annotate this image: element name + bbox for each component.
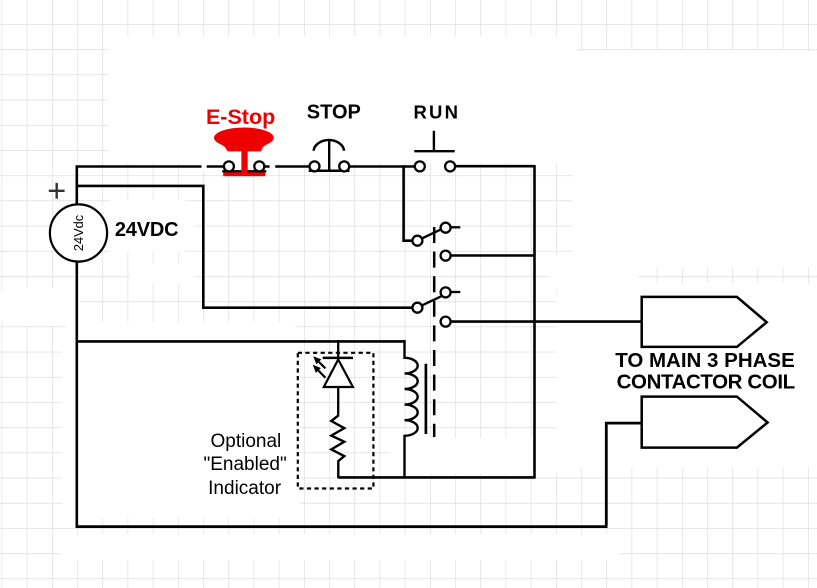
wire coil bottom to bus [338,476,535,479]
bottom rail wire [76,525,608,528]
wire flag 2 to bottom rail [606,423,641,525]
wire minus rail to coil top [76,340,405,343]
svg-text:CONTACTOR COIL: CONTACTOR COIL [617,371,795,394]
power source B1 24VDC [50,204,107,261]
svg-text:Optional: Optional [211,431,282,452]
wire E-Stop to STOP [265,165,310,168]
svg-text:TO MAIN 3 PHASE: TO MAIN 3 PHASE [615,349,795,372]
resistor R1 [331,416,344,479]
svg-text:RUN: RUN [413,102,460,123]
wire K1a latch to bus [451,254,536,257]
dotted enclosure (optional indicator) [298,353,374,489]
node A drop wire to contact K1a [404,165,413,240]
wire top rail battery to E-Stop [76,165,225,168]
svg-text:"Enabled": "Enabled" [203,454,286,475]
mechanical link (dashed) [433,227,436,437]
plus sign [49,183,65,199]
wire battery minus down left side [76,261,79,528]
emergency stop switch S1 (E-Stop mushroom) [214,128,274,177]
wire battery plus to contact K1b [77,186,413,308]
svg-text:E-Stop: E-Stop [206,105,275,129]
relay contact K1b (output, lower) [412,287,460,326]
svg-text:STOP: STOP [307,101,361,123]
svg-text:24VDC: 24VDC [115,219,178,241]
relay coil K1 [405,340,426,478]
pushbutton STOP (normally closed) [309,140,350,171]
wire gap marks near E-Stop [202,163,276,171]
LED D1 [313,340,353,417]
output flag 1 (top) [642,297,767,347]
wire STOP to RUN [349,165,415,168]
svg-text:Indicator: Indicator [208,478,282,499]
wire K1b to output flag [451,320,643,323]
bus vertical wire [533,165,536,478]
relay contact K1a (latch, upper) [412,223,460,261]
svg-text:24Vdc: 24Vdc [71,214,86,251]
wire battery plus up to top rail [76,167,79,206]
output flag 2 (bottom) [642,397,768,448]
pushbutton RUN (normally open) [414,131,455,172]
wire RUN to bus corner [455,165,534,168]
